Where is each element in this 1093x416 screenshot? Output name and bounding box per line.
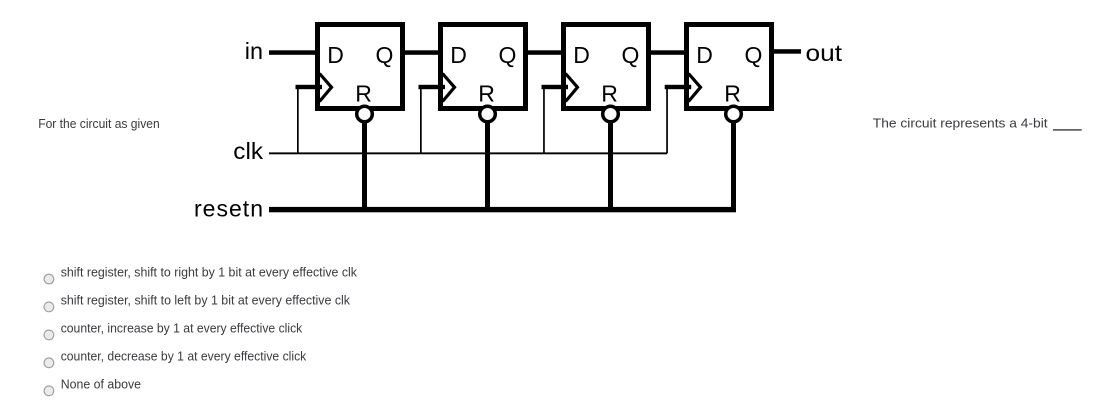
svg-text:resetn: resetn [194,195,263,221]
svg-text:clk: clk [233,138,263,164]
clk bus wire [269,152,667,154]
clk stub wire into U2 [419,85,446,89]
D flip-flop U2 body [441,25,526,109]
resetn bus wire [269,207,736,212]
U1 active-low reset bubble [357,106,373,122]
radio button option 5 [44,386,54,396]
svg-text:shift register, shift to right: shift register, shift to right by 1 bit … [61,265,358,280]
svg-text:Q: Q [375,42,393,68]
U2 active-low reset bubble [480,106,496,122]
U3 clock edge triangle [566,74,578,102]
clk riser wire to U4 [666,86,668,153]
svg-text:Q: Q [744,42,762,68]
U4 active-low reset bubble [726,106,742,122]
wire U2 bubble to resetn [485,121,490,210]
wire U3 bubble to resetn [608,121,613,210]
svg-text:shift register, shift to left: shift register, shift to left by 1 bit a… [61,293,351,308]
radio button option 4 [44,358,54,368]
svg-text:D: D [327,42,344,68]
U4 clock edge triangle [689,74,701,102]
clk stub wire into U4 [665,85,692,89]
svg-text:R: R [478,81,495,107]
clk riser wire to U1 [297,86,299,153]
svg-text:D: D [573,42,590,68]
clk stub wire into U1 [296,85,323,89]
svg-text:For the circuit as given: For the circuit as given [38,116,160,131]
svg-text:R: R [601,81,618,107]
wire U1 Q to U2 D [400,50,442,55]
radio button option 1 [44,274,54,284]
wire U1 bubble to resetn [362,121,367,210]
wire U4 Q to out [769,49,801,54]
radio button option 3 [44,330,54,340]
U1 clock edge triangle [320,74,332,102]
wire U2 Q to U3 D [523,50,565,55]
D flip-flop U4 body [687,25,772,109]
svg-text:D: D [696,42,713,68]
wire U4 bubble to resetn [731,121,736,210]
wire U3 Q to U4 D [646,50,688,55]
blank underline [1053,129,1082,130]
U2 clock edge triangle [443,74,455,102]
svg-text:counter, increase by 1 at ever: counter, increase by 1 at every effectiv… [61,321,303,336]
svg-text:Q: Q [498,42,516,68]
svg-text:out: out [806,40,843,66]
D flip-flop U1 body [318,25,403,109]
svg-text:D: D [450,42,467,68]
svg-text:R: R [355,81,372,107]
svg-text:R: R [724,81,741,107]
wire in to U1 pin D [269,50,318,55]
D flip-flop U3 body [564,25,649,109]
clk stub wire into U3 [542,85,569,89]
clk riser wire to U3 [543,86,545,153]
svg-text:Q: Q [621,42,639,68]
svg-text:in: in [245,38,263,64]
clk riser wire to U2 [420,86,422,153]
svg-text:counter, decrease by 1 at ever: counter, decrease by 1 at every effectiv… [61,349,307,364]
radio button option 2 [44,302,54,312]
U3 active-low reset bubble [603,106,619,122]
svg-text:None of above: None of above [61,376,141,391]
svg-text:The circuit represents a 4-bit: The circuit represents a 4-bit [873,116,1048,131]
